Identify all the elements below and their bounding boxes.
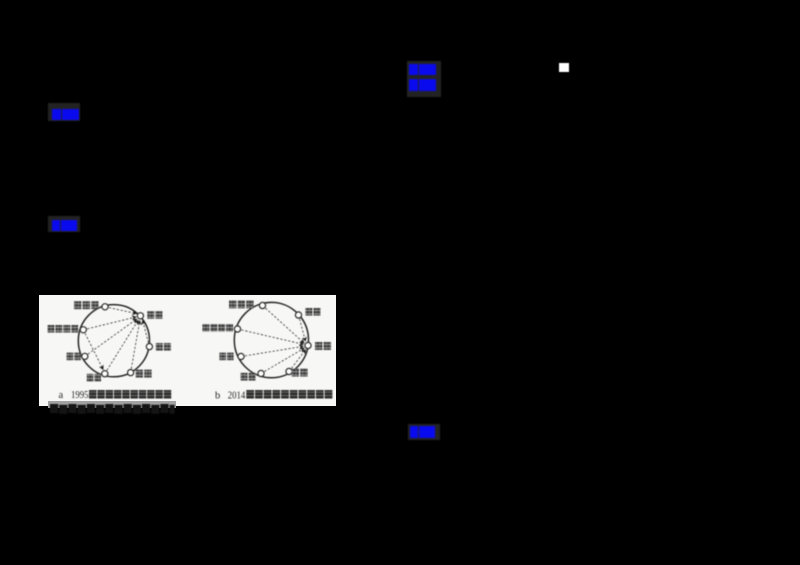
bottom right link chip background <box>408 424 440 440</box>
figure: white box with two network diagrams <box>39 295 336 406</box>
wire IN->US <box>85 319 137 357</box>
caption b <box>215 391 246 402</box>
wire AU->JP <box>83 330 103 370</box>
label 澳大利亚 (a) <box>48 325 79 333</box>
nodes a <box>80 304 152 377</box>
nodes b <box>234 302 311 376</box>
wire KR->US <box>131 320 140 372</box>
svg-text:2014: 2014 <box>228 391 246 402</box>
label 印度 (b) <box>219 353 233 361</box>
wire JP->CN <box>261 348 305 374</box>
label 新加坡 (b) <box>229 300 254 308</box>
link chip 2 background <box>48 216 80 232</box>
label 韩国 (b) <box>292 369 308 377</box>
circle ring a <box>78 305 149 377</box>
bottom right link blue text <box>410 426 435 438</box>
label 美国 (a) <box>147 311 162 319</box>
label 日本 (a) <box>87 374 101 382</box>
dashed arrows b (all into China node) <box>238 306 306 374</box>
svg-text:b: b <box>215 391 220 402</box>
right link chip (two lines) background <box>407 61 441 97</box>
right link line 2 blue text <box>409 79 436 91</box>
circle ring b <box>234 302 308 377</box>
dashed arrows a (all into USA node, plus AU->JP) <box>83 307 149 374</box>
label 澳大利亚 (b) <box>202 324 233 332</box>
svg-text:1995: 1995 <box>71 390 89 401</box>
label 日本 (b) <box>241 373 256 381</box>
grey highlighted caption strip below figure <box>48 401 176 408</box>
wire US->CN <box>299 315 306 341</box>
label 新加坡 (a) <box>74 301 99 309</box>
caption a <box>59 390 89 401</box>
label 韩国 (a) <box>136 370 152 378</box>
wire SG->US <box>105 307 137 314</box>
wire KR->CN <box>289 350 306 372</box>
caption strip dark text tops (cut off) <box>48 402 176 414</box>
link chip 2 blue text <box>52 220 77 231</box>
right link line 1 blue text <box>409 64 436 75</box>
label 中国 (b) <box>315 342 331 350</box>
white square bullet <box>559 63 569 72</box>
link chip 1 background <box>48 103 80 121</box>
wire JP->US <box>105 320 139 374</box>
label 印度 (a) <box>67 353 81 361</box>
svg-text:a: a <box>59 390 64 401</box>
wire AU->US <box>83 317 136 330</box>
link chip 1 blue text <box>52 109 79 120</box>
wire AU->CN <box>238 329 304 344</box>
label 美国 (b) <box>305 308 320 316</box>
wire IN->CN <box>241 346 304 356</box>
label 中国 (a) <box>156 343 171 351</box>
wire SG->CN <box>263 306 305 344</box>
wire CN->US <box>143 320 150 346</box>
